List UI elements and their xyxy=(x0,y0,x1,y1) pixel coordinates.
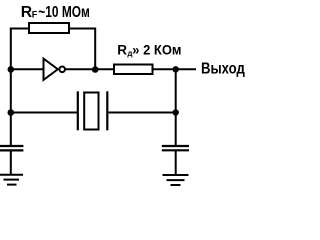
wire: left rail (inverter input node) from feedback top corner down to C1 xyxy=(11,29,28,146)
ground (right) bar 1 xyxy=(163,174,189,176)
ground (right) bar 2 xyxy=(167,179,185,181)
svg-text:Выход: Выход xyxy=(201,61,245,78)
ground (right) bar 3 xyxy=(171,184,181,186)
svg-text:» 2 КОм: » 2 КОм xyxy=(132,43,181,58)
resistor RF (feedback, ~10 МОм) xyxy=(29,23,69,33)
capacitor C2 bottom plate xyxy=(162,149,189,151)
svg-text:F: F xyxy=(32,10,38,20)
wire: crystal right plate to right rail xyxy=(108,112,175,114)
crystal ZQ1 body xyxy=(84,93,98,130)
op-amp U1 inverter triangle xyxy=(44,59,58,80)
ground (left) bar 3 xyxy=(7,184,17,186)
svg-text:~10 МОм: ~10 МОм xyxy=(38,4,90,21)
crystal ZQ1 right plate xyxy=(106,91,108,130)
wire: RF right side to feedback corner, down to inverter output xyxy=(70,29,95,70)
resistor RD (2 КОм) xyxy=(114,65,153,75)
capacitor C2 top plate xyxy=(162,145,189,147)
ground (left) bar 1 xyxy=(0,174,23,176)
wire: C2 to ground xyxy=(175,151,177,175)
wire: RD to output terminal xyxy=(154,68,197,70)
wire: input node down-rail to crystal left plate xyxy=(11,112,78,114)
node: inverter input junction dot xyxy=(8,66,15,73)
node: crystal right junction dot xyxy=(173,109,179,115)
svg-text:R: R xyxy=(21,4,32,21)
svg-text:R: R xyxy=(117,43,127,58)
crystal ZQ1 left plate xyxy=(77,91,79,130)
wire: C1 to ground xyxy=(10,151,12,175)
inverter output bubble xyxy=(59,67,65,73)
capacitor C1 bottom plate xyxy=(0,149,23,151)
node: crystal left junction dot xyxy=(8,109,15,116)
capacitor C1 top plate xyxy=(0,145,23,147)
wire: input node to inverter xyxy=(10,68,44,70)
node: inverter output junction dot xyxy=(92,66,99,73)
node: output junction dot xyxy=(173,66,179,72)
wire: inverter output to RD xyxy=(66,68,115,70)
ground (left) bar 2 xyxy=(4,179,20,181)
wire: right rail from output node down to C2 xyxy=(175,69,177,145)
